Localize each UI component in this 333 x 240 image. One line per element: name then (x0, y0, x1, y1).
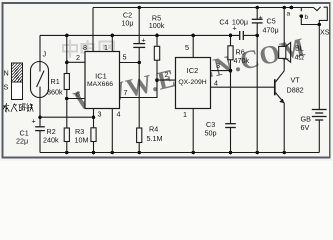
wire top supply rail (93, 7, 314, 9)
svg-text:+: + (142, 36, 146, 45)
wire emitter to ground rail (283, 103, 285, 153)
svg-text:2: 2 (165, 70, 169, 79)
svg-text:5.1M: 5.1M (147, 134, 163, 143)
svg-text:3: 3 (98, 110, 102, 119)
resistor R5 body (154, 46, 159, 60)
wire IC2 pin1 to ground rail (192, 109, 194, 153)
capacitor C2 top lead (138, 8, 140, 44)
transistor VT emitter arrow (280, 98, 285, 103)
resistor R2 body (64, 128, 69, 142)
capacitor C2 plates (133, 43, 145, 45)
svg-text:N: N (4, 69, 9, 78)
svg-text:IC2: IC2 (187, 66, 199, 75)
svg-text:5: 5 (123, 53, 127, 62)
svg-text:VT: VT (291, 76, 301, 85)
op-amp U2 IC2 box (176, 58, 211, 109)
svg-text:C5: C5 (267, 17, 276, 26)
svg-text:50p: 50p (205, 129, 217, 138)
capacitor C5 top lead (256, 8, 258, 20)
svg-text:S: S (4, 83, 9, 92)
wire IC1 pin2 (67, 61, 85, 63)
svg-text:100k: 100k (149, 21, 165, 30)
wire IC1 pin4 to ground rail (111, 109, 113, 153)
wire IC1 pin6 (67, 98, 85, 100)
wire IC1 pin8 drop from top rail (92, 8, 94, 52)
svg-text:10M: 10M (75, 136, 89, 145)
wire mid rail (40, 34, 240, 36)
wire ground rail (40, 152, 319, 154)
svg-text:240k: 240k (43, 136, 59, 145)
svg-text:6V: 6V (301, 123, 310, 132)
wire IC1 pin3 to J and C1 (40, 116, 94, 118)
svg-text:MAX666: MAX666 (87, 81, 113, 88)
battery GB bottom lead (318, 120, 320, 153)
svg-text:22μ: 22μ (16, 137, 28, 146)
reed switch J contacts (39, 62, 41, 72)
reed switch J outline (31, 62, 49, 98)
capacitor C5 plates (252, 18, 263, 20)
wire jack break contact notch (314, 7, 321, 11)
svg-text:10μ: 10μ (121, 19, 133, 28)
resistor R4 body (137, 128, 142, 143)
speaker BL bottom lead (283, 58, 285, 70)
battery GB plates (312, 109, 327, 111)
svg-text:2: 2 (76, 53, 80, 62)
svg-text:4: 4 (117, 110, 121, 119)
svg-text:J: J (43, 50, 47, 59)
wire jack sleeve link (319, 20, 323, 24)
resistor R3 top lead (93, 117, 95, 128)
resistor R6 top lead (230, 35, 232, 45)
wire contact b to jack sleeve (301, 16, 319, 24)
permanent magnet bar (12, 63, 23, 100)
svg-text:XS: XS (320, 28, 330, 37)
connector XS jack body (324, 7, 328, 20)
capacitor C3 plates (225, 123, 236, 125)
svg-text:5: 5 (185, 43, 189, 52)
wire IC2 pin3 (211, 70, 231, 72)
svg-text:C4: C4 (219, 18, 228, 27)
resistor R4 bottom lead (138, 143, 140, 153)
resistor R6 body (228, 46, 233, 60)
capacitor C1 plates (35, 126, 45, 128)
resistor R1 body (64, 74, 69, 90)
wire IC1 pin5 (120, 62, 140, 64)
wire J bottom lead (39, 98, 41, 118)
svg-text:D882: D882 (287, 86, 304, 95)
svg-text:3: 3 (216, 61, 220, 70)
op-amp U1 IC1 box (85, 52, 120, 109)
svg-text:8: 8 (83, 43, 87, 52)
resistor R3 body (91, 128, 96, 142)
wire IC2 pin4 to base (211, 86, 275, 88)
svg-text:QX-209H: QX-209H (178, 79, 206, 86)
watermark 中电网 drawn strokes (63, 40, 114, 58)
svg-text:1: 1 (104, 43, 108, 52)
svg-text:4Ω: 4Ω (295, 53, 305, 62)
battery GB top lead (318, 25, 320, 110)
svg-text:BL: BL (295, 44, 304, 53)
resistor R5 top lead (156, 35, 158, 46)
capacitor C2 bottom lead (138, 47, 140, 62)
wire C4 to C5 node (243, 34, 257, 36)
svg-text:b: b (305, 14, 309, 21)
wire node feed to R4 (138, 63, 140, 129)
capacitor C1 top lead (39, 117, 41, 127)
speaker BL top lead (283, 8, 285, 47)
svg-text:6: 6 (76, 90, 80, 99)
svg-text:IC1: IC1 (95, 72, 107, 81)
svg-text:R4: R4 (149, 125, 158, 134)
capacitor C1 bottom lead (39, 131, 41, 153)
svg-text:R1: R1 (51, 77, 60, 86)
wire IC1 pin1 drop (111, 35, 113, 51)
svg-text:+: + (233, 24, 237, 33)
wire IC2 pin5 drop (192, 35, 194, 57)
label permanent magnet caption 永久磁铁 drawn strokes (3, 103, 33, 112)
wire J top lead (39, 35, 41, 61)
resistor R5 bottom lead (156, 60, 158, 80)
capacitor C3 bottom lead (230, 128, 232, 153)
capacitor C3 top lead (230, 71, 232, 124)
transistor VT emitter (276, 93, 285, 103)
svg-text:a: a (287, 11, 291, 18)
resistor R6 bottom lead (230, 60, 232, 71)
svg-text:+: + (32, 117, 36, 126)
svg-text:4: 4 (214, 79, 218, 88)
svg-text:470μ: 470μ (263, 26, 279, 35)
transistor Q1 VT base bar (274, 79, 276, 95)
resistor R2 bottom lead (66, 142, 68, 153)
wire IC1 pin7 (120, 80, 158, 97)
svg-text:470k: 470k (234, 56, 250, 65)
wire IC1 pin3 drop (93, 109, 95, 118)
wire jack tick contact b (300, 8, 302, 12)
svg-text:360k: 360k (47, 88, 63, 97)
capacitor C4 plates (239, 31, 241, 40)
svg-text:7: 7 (124, 88, 128, 97)
transistor VT collector (276, 71, 285, 82)
speaker BL body (279, 46, 286, 58)
resistor R3 bottom lead (93, 142, 95, 153)
resistor R1 top lead (66, 35, 68, 73)
capacitor C5 bottom lead to ground rail (256, 23, 258, 153)
wire IC2 pin2 (157, 79, 176, 81)
svg-text:1: 1 (183, 110, 187, 119)
resistor R1 bottom lead to R2 (66, 90, 68, 129)
svg-text:+: + (259, 13, 263, 22)
